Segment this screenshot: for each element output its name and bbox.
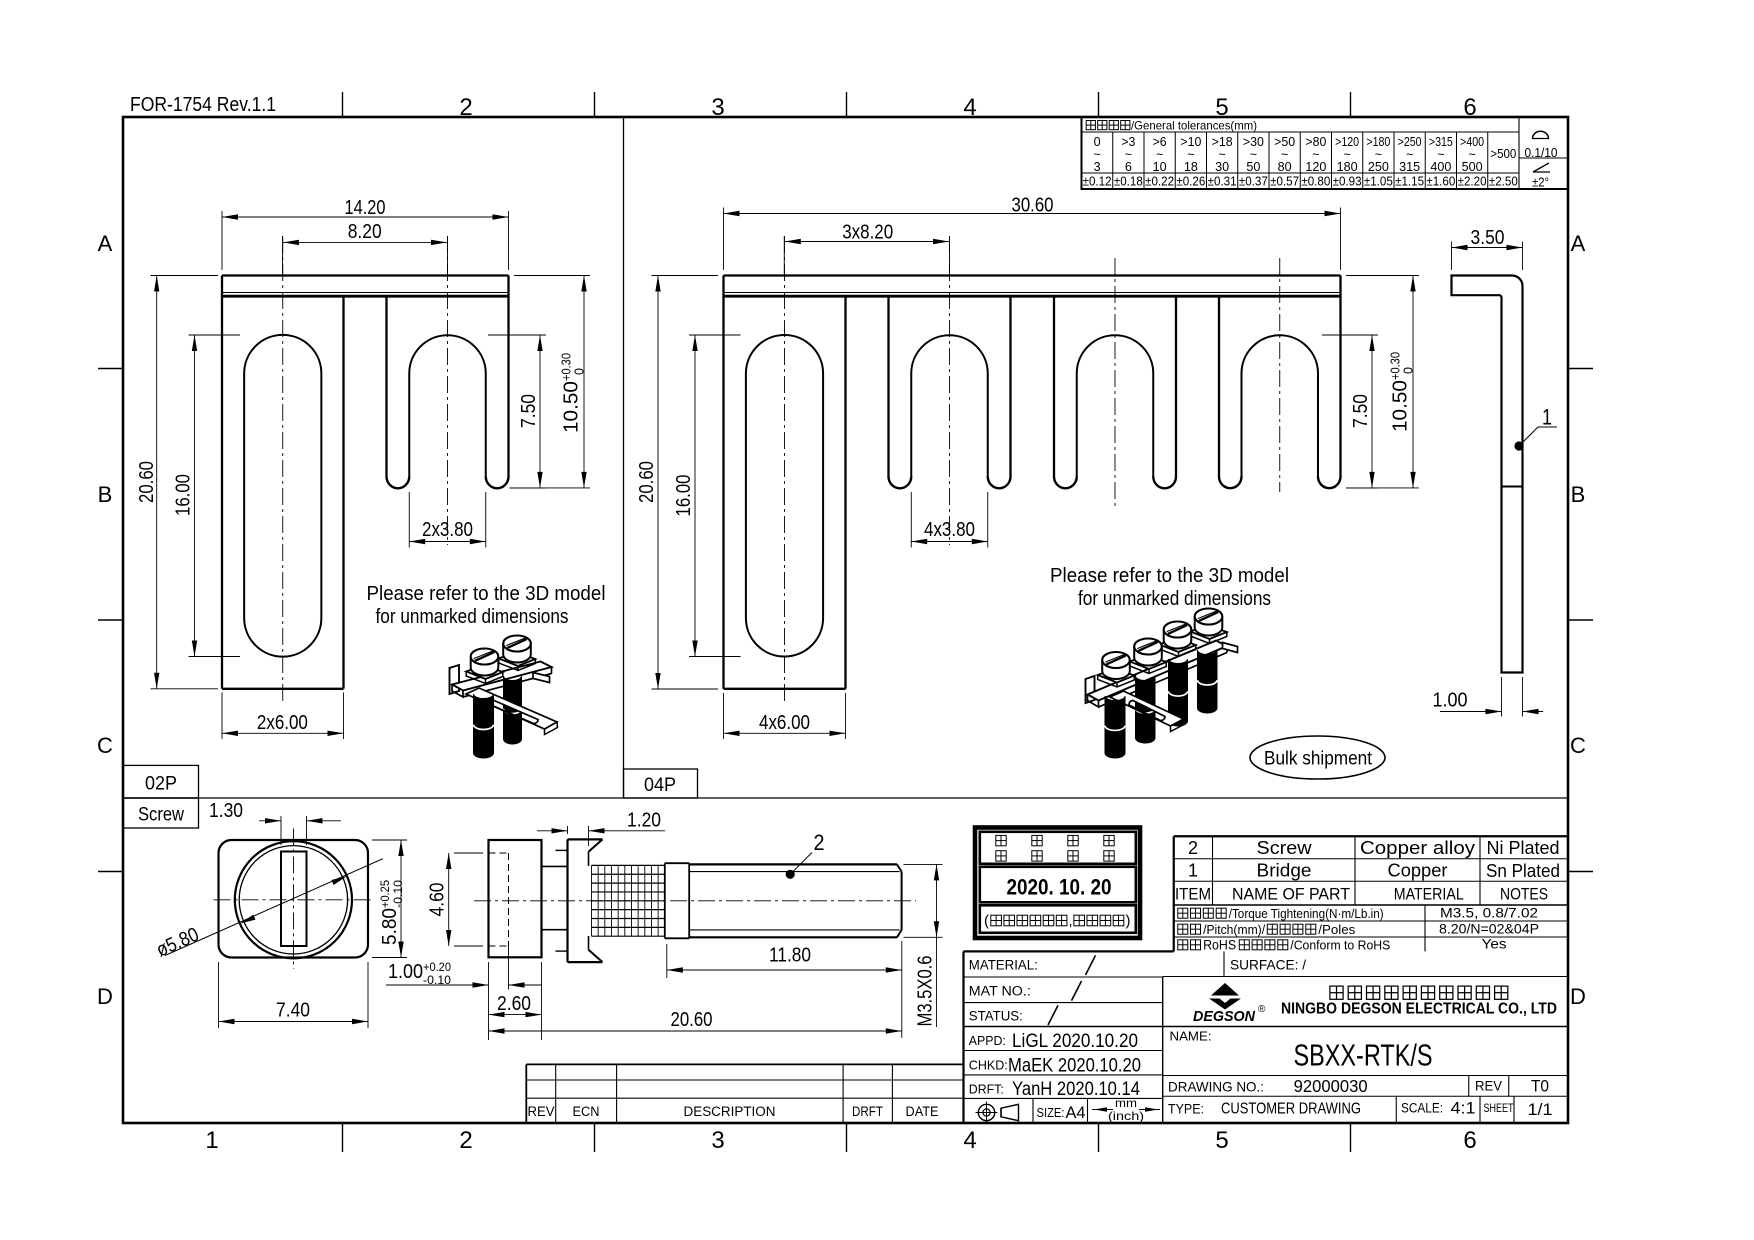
04P label box [624,769,698,798]
svg-text:3x8.20: 3x8.20 [842,222,893,244]
svg-text:STATUS:: STATUS: [969,1009,1023,1024]
svg-text:10: 10 [1153,160,1167,174]
spec row torque [1178,908,1188,918]
dim 10.50 +0.30/0 (02P) [514,275,590,277]
svg-text:/Poles: /Poles [1318,922,1356,937]
dim 8.20 [283,241,448,243]
svg-text:NAME OF PART: NAME OF PART [1232,885,1350,904]
3D screw shank (black) [1169,659,1188,726]
svg-text:500: 500 [1462,160,1483,174]
svg-text:1: 1 [205,1127,218,1154]
3D screw washer [1190,625,1227,639]
dim 4x3.80 (04P) [910,492,912,548]
svg-text:DRAWING NO.:: DRAWING NO.: [1168,1079,1264,1095]
vertical divider between 02P and 04P views [623,117,625,798]
svg-text:mm: mm [1115,1096,1137,1110]
oblong slot in pin plate [746,335,823,657]
svg-text:2020. 10. 20: 2020. 10. 20 [1007,875,1112,900]
svg-text:Sn Plated: Sn Plated [1486,861,1560,881]
svg-text:1: 1 [1188,861,1198,881]
3D screw washer [1098,669,1135,683]
drawing no row [1163,1075,1568,1077]
3D screw shank (black) [474,694,494,758]
screw front view centerlines [214,899,375,901]
svg-text:Please refer to the 3D mo: Please refer to the 3D model [1050,565,1289,587]
svg-text:D: D [97,984,113,1009]
svg-text:DATE: DATE [906,1104,939,1119]
svg-text:CUSTOMER DRAWING: CUSTOMER DRAWING [1221,1101,1361,1118]
svg-text:(inch): (inch) [1108,1109,1144,1123]
dim 20.60 (04P) [652,275,719,277]
svg-text:DEGSON: DEGSON [1193,1008,1256,1025]
svg-text:Screw: Screw [1257,838,1313,858]
general tolerance table [1082,117,1569,189]
svg-text:Screw: Screw [138,805,184,826]
svg-text:±0.31: ±0.31 [1208,175,1237,189]
screw head front view rounded square [219,840,369,958]
svg-text:1: 1 [1542,405,1552,430]
svg-text:±0.18: ±0.18 [1114,175,1143,189]
svg-text:SBXX-RTK/S: SBXX-RTK/S [1294,1038,1433,1073]
svg-text:3.50: 3.50 [1471,227,1505,249]
svg-text:92000030: 92000030 [1294,1076,1368,1096]
title block outer borders [962,951,964,1123]
svg-text:1.00+0.20-0.10: 1.00+0.20-0.10 [388,960,451,987]
svg-text:±0.26: ±0.26 [1176,175,1205,189]
svg-text:RoHS: RoHS [1203,938,1236,953]
zone ticks right [1568,368,1593,370]
svg-text:6: 6 [1463,1127,1476,1154]
svg-text:2: 2 [814,830,825,855]
3D screw head [1134,647,1162,666]
dim 16.00 (04P) [689,334,741,336]
svg-text:A4: A4 [1066,1103,1086,1122]
svg-text:16.00: 16.00 [673,475,695,517]
degson logo [1211,983,1239,996]
horizontal divider above screw section [123,797,1568,799]
svg-text:04P: 04P [644,775,676,796]
svg-text:ITEM: ITEM [1175,885,1211,904]
3D screw head [1164,630,1192,649]
bridge fork fingers [1339,276,1341,477]
svg-text:A: A [1571,231,1586,256]
dim Ø5.80 diagonal [165,859,383,956]
svg-text:SIZE:: SIZE: [1037,1106,1065,1120]
svg-text:NINGBO DEGSON ELECTRICAL CO.,: NINGBO DEGSON ELECTRICAL CO., LTD [1281,1001,1557,1018]
svg-text:NAME:: NAME: [1170,1029,1212,1044]
projection symbol [978,1104,994,1120]
svg-text:7.40: 7.40 [276,1000,310,1022]
dim 2.60 [488,962,490,1040]
3D pin 02P [533,673,550,683]
bridge top bar [724,274,1341,276]
svg-text:14.20: 14.20 [345,197,386,219]
bridge solid pin plate [221,276,223,689]
svg-text:SHEET: SHEET [1484,1101,1514,1115]
bridge fork fingers [1175,296,1177,476]
svg-text:18: 18 [1184,160,1198,174]
svg-text:4x6.00: 4x6.00 [759,712,810,734]
svg-text:APPD:: APPD: [969,1034,1006,1048]
bridge solid pin plate [722,276,724,689]
svg-text:M3.5, 0.8/7.02: M3.5, 0.8/7.02 [1440,905,1538,921]
screw side view hidden slot depth [489,852,509,854]
3D bridge bar 02P [450,665,460,694]
bridge top bar [222,274,509,276]
svg-text:7.50: 7.50 [518,394,540,428]
svg-text:±0.93: ±0.93 [1333,175,1362,189]
svg-text:DESCRIPTION: DESCRIPTION [684,1104,776,1119]
screw neck [542,865,568,867]
svg-text:±0.12: ±0.12 [1083,175,1112,189]
side view plating boundary line [1502,486,1523,488]
svg-text:ECN: ECN [573,1104,600,1119]
screw side view head [489,840,542,957]
3D screw washer [1159,638,1196,652]
svg-text:/Conform to RoHS: /Conform to RoHS [1290,938,1390,953]
svg-text:for unmarked dimensions: for unmarked dimensions [376,606,569,628]
svg-text:DRFT:: DRFT: [969,1083,1004,1097]
svg-text:C: C [97,733,113,758]
svg-text:±0.37: ±0.37 [1239,175,1268,189]
svg-text:±1.60: ±1.60 [1426,175,1455,189]
cone symbol [1001,1104,1019,1120]
screw label box [123,798,199,828]
parts table lines [1174,858,1568,860]
3D bridge bar 04P [1086,676,1095,703]
svg-text:30.60: 30.60 [1012,195,1054,217]
svg-text:SCALE:: SCALE: [1401,1101,1443,1116]
svg-text:MATERIAL: MATERIAL [1394,885,1464,904]
dim 10.50 +0.30/0 (04P) [1346,275,1419,277]
svg-text:±0.22: ±0.22 [1145,175,1174,189]
dim 1.00 (side view) [1501,677,1503,717]
bridge fork fingers [1009,296,1011,476]
dim 5.80 +0.25/-0.10 [372,839,407,841]
svg-text:4: 4 [963,1127,976,1154]
svg-text:,: , [1069,913,1073,929]
tolerance table header text [1086,121,1095,130]
screw head inner circle [239,846,347,954]
svg-text:3: 3 [711,94,724,121]
svg-text:1.20: 1.20 [627,810,661,832]
approval rows [964,1050,1163,1052]
3D pin 04P [1223,643,1238,653]
balloon 1 leader [1514,441,1523,450]
svg-text:7.50: 7.50 [1350,394,1372,428]
screw collar [665,862,689,864]
oblong slot in pin plate [244,335,321,657]
svg-text:80: 80 [1278,160,1292,174]
svg-text:±1.05: ±1.05 [1364,175,1393,189]
3D screw shank (black) [504,676,522,744]
svg-text:REV: REV [528,1104,555,1119]
3D fork plate 02P [466,688,557,729]
3D screw head [1102,660,1130,679]
dim 7.40 [218,962,220,1028]
svg-text:±0.80: ±0.80 [1301,175,1330,189]
svg-text:Yes: Yes [1482,936,1507,952]
svg-text:2x3.80: 2x3.80 [422,519,473,541]
svg-text:C: C [1570,733,1586,758]
svg-text:16.00: 16.00 [173,474,195,516]
dim 7.50 (02P) [488,334,546,336]
svg-text:4: 4 [963,94,976,121]
3D screw washer [499,652,536,666]
svg-text:FOR-1754 Rev.1.1: FOR-1754 Rev.1.1 [130,94,276,116]
dim 3.50 [1451,242,1453,271]
dim 2x6.00 (02P) [221,693,223,740]
dim 4.60 [454,852,483,854]
fork centerline [1279,258,1281,492]
svg-text:50: 50 [1246,160,1260,174]
screw head outer circle [235,841,352,958]
3D screw shank (black) [1136,676,1156,743]
stamp chinese row1 [996,835,1006,845]
spec row RoHS [1178,940,1188,950]
fork centerline [1114,258,1116,508]
zone ticks top [342,92,344,117]
svg-text:MAT NO.:: MAT NO.: [969,984,1031,999]
svg-text:4.60: 4.60 [427,883,449,917]
svg-text:1.30: 1.30 [209,800,243,822]
svg-text:for unmarked dimensions: for unmarked dimensions [1078,588,1271,610]
dim 1.00 +0.20/-0.10 (slot depth) [386,984,489,986]
svg-text:2: 2 [459,1127,472,1154]
svg-text:0.1/10: 0.1/10 [1525,146,1558,160]
svg-text:SURFACE: /: SURFACE: / [1230,957,1306,973]
screw threaded shank [689,863,897,865]
svg-text:T0: T0 [1531,1077,1549,1096]
svg-text:6: 6 [1125,160,1132,174]
screw centerline [474,900,916,902]
svg-text:11.80: 11.80 [769,945,811,967]
dim 20.60 (02P) [151,275,219,277]
svg-text:30: 30 [1215,160,1229,174]
svg-text:20.60: 20.60 [636,461,658,503]
angle symbol [1533,171,1550,173]
revision table [526,1063,963,1065]
svg-text:8.20: 8.20 [348,221,382,243]
dim 3x8.20 [784,241,949,243]
svg-text:4:1: 4:1 [1451,1099,1476,1118]
svg-text:20.60: 20.60 [136,461,158,503]
size cell [1032,1098,1034,1123]
svg-text:2: 2 [459,94,472,121]
dim M3.5X0.6 [904,863,943,865]
dim 14.20 [221,211,223,270]
fork centerline [447,236,449,545]
3D screw head [1195,617,1223,636]
pin plate centerline [282,236,284,702]
dim 2x3.80 (02P) [408,492,410,548]
flatness symbol [1532,138,1549,140]
svg-text:±2°: ±2° [1532,176,1549,190]
bulk shipment ellipse [1250,736,1385,779]
svg-text:Bulk shipment: Bulk shipment [1264,749,1373,770]
svg-text:400: 400 [1430,160,1451,174]
svg-text:REV: REV [1475,1079,1502,1094]
bridge side view L-profile [1452,276,1523,673]
3D screw shank (black) [1198,650,1218,713]
3D fork plate 04P [1110,691,1184,726]
svg-text:CHKD:: CHKD: [969,1059,1008,1073]
screw thread run-up knurl [592,864,665,866]
svg-text:A: A [98,231,113,256]
svg-text:180: 180 [1337,160,1358,174]
svg-text:02P: 02P [145,774,177,795]
svg-text:NOTES: NOTES [1500,885,1548,904]
zone ticks left [98,368,123,370]
svg-text:Bridge: Bridge [1257,861,1312,881]
svg-text:±1.15: ±1.15 [1395,175,1424,189]
dim 1.30 [280,816,282,845]
svg-text:): ) [1126,913,1131,930]
spec row pitch [1178,924,1188,934]
svg-text:±2.20: ±2.20 [1458,175,1487,189]
zone ticks bottom [342,1123,344,1152]
screwdriver slot [281,852,307,947]
stamp chinese row2 [996,851,1006,861]
svg-text:±2.50: ±2.50 [1489,175,1518,189]
dim 30.60 [723,208,725,271]
svg-text:3: 3 [1094,160,1101,174]
svg-text:(: ( [984,913,989,930]
svg-text:/Pitch(mm)/: /Pitch(mm)/ [1203,922,1265,937]
material/surface rows [964,976,1163,978]
3D screw washer [1130,655,1167,669]
svg-text:2.60: 2.60 [497,993,531,1015]
dim 1.20 [567,826,569,834]
svg-text:MaEK 2020.10.20: MaEK 2020.10.20 [1008,1056,1141,1077]
svg-text:±0.57: ±0.57 [1270,175,1299,189]
pin plate centerline [784,236,786,702]
02P label box [123,765,199,798]
svg-text:Copper alloy: Copper alloy [1360,838,1475,858]
dim 11.80 [666,944,668,978]
svg-text:MATERIAL:: MATERIAL: [969,958,1038,973]
svg-text:D: D [1570,984,1586,1009]
dim 4x6.00 (04P) [723,693,725,739]
svg-text:1/1: 1/1 [1528,1100,1553,1119]
svg-text:5.80+0.25-0.10: 5.80+0.25-0.10 [378,880,405,945]
screw conical washer flange [566,839,568,962]
dim 7.50 (04P) [1322,334,1378,336]
svg-text:Copper: Copper [1388,861,1448,881]
shank end chamfer [897,864,902,871]
bridge fork fingers [507,276,509,477]
svg-text:DRFT: DRFT [852,1104,883,1119]
3D screw head [503,644,531,663]
svg-text:4x3.80: 4x3.80 [924,519,975,541]
svg-text:315: 315 [1399,160,1420,174]
svg-text:®: ® [1258,1004,1266,1015]
svg-text:20.60: 20.60 [671,1009,713,1031]
svg-text:1.00: 1.00 [1433,690,1468,712]
svg-text:B: B [98,482,113,507]
dim 20.60 (screw) [901,941,903,1038]
dim 16.00 (02P) [189,334,241,336]
3D screw washer [466,665,503,679]
balloon 2 leader [786,870,795,879]
svg-text:2x6.00: 2x6.00 [257,712,308,734]
svg-text:Please refer to the 3D mo: Please refer to the 3D model [367,583,606,605]
svg-text:>500: >500 [1490,147,1516,161]
svg-text:250: 250 [1368,160,1389,174]
svg-text:3: 3 [711,1127,724,1154]
svg-text:/General tolerances(mm): /General tolerances(mm) [1131,119,1257,133]
fork centerline [949,236,951,545]
3D screw head [471,657,499,676]
svg-text:M3.5X0.6: M3.5X0.6 [915,956,937,1027]
svg-text:8.20/N=02&04P: 8.20/N=02&04P [1439,921,1539,937]
3D screw shank (black) [1105,696,1125,758]
document control stamp [975,828,1140,939]
svg-text:TYPE:: TYPE: [1168,1102,1204,1117]
type row [1395,1096,1397,1123]
svg-text:120: 120 [1305,160,1326,174]
svg-text:B: B [1571,482,1586,507]
svg-text:LiGL 2020.10.20: LiGL 2020.10.20 [1012,1031,1138,1052]
drawing frame border [123,117,1568,1123]
svg-text:/Torque Tightening(N·m/Lb.in): /Torque Tightening(N·m/Lb.in) [1229,906,1384,921]
svg-text:5: 5 [1215,1127,1228,1154]
svg-text:2: 2 [1188,838,1198,858]
svg-text:Ni Plated: Ni Plated [1487,838,1560,858]
spec table lines [1174,920,1568,922]
